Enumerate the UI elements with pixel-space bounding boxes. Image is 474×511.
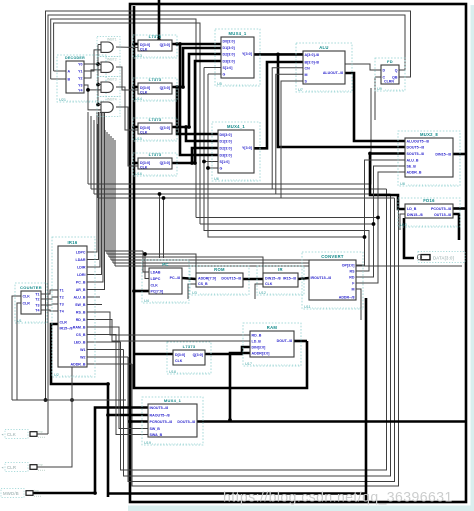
svg-text:ADDR_B: ADDR_B xyxy=(71,363,86,367)
convert U11 xyxy=(302,252,363,309)
svg-text:U18: U18 xyxy=(169,370,176,374)
svg-text:PCROUT5--/8: PCROUT5--/8 xyxy=(150,420,173,424)
svg-text:PC[7:0]: PC[7:0] xyxy=(151,290,164,294)
junction sel dots xyxy=(202,160,210,170)
wire counter q3 xyxy=(41,304,58,305)
svg-text:CLK: CLK xyxy=(140,91,148,95)
wire select loop s1 xyxy=(200,224,374,277)
svg-text:CS_B: CS_B xyxy=(76,333,86,337)
svg-text:INST1: INST1 xyxy=(107,38,117,42)
junction regB xyxy=(175,85,185,89)
svg-text:CN: CN xyxy=(305,66,311,70)
svg-text:CLK: CLK xyxy=(265,282,273,286)
svg-text:IR: IR xyxy=(278,267,283,272)
svg-text:CLK: CLK xyxy=(151,284,159,288)
bus L7373 to RAM xyxy=(205,347,250,354)
svg-text:A: A xyxy=(68,70,71,74)
bus ALU out xyxy=(345,73,405,141)
wire fd d xyxy=(345,64,381,70)
junction mux28 entries xyxy=(368,152,372,156)
bus IR16 input loop xyxy=(51,324,108,497)
svg-text:U2: U2 xyxy=(54,373,59,377)
svg-text:U7: U7 xyxy=(298,88,303,92)
wire IR16 mid stub1 xyxy=(87,296,100,298)
wire mux28 pin6 down xyxy=(378,172,405,218)
svg-text:A[3:0]-/8: A[3:0]-/8 xyxy=(305,53,319,57)
wire ir16 pin stub b3 xyxy=(87,356,128,358)
wire loop bottom4 xyxy=(132,195,399,486)
fd16 U10 xyxy=(398,198,460,227)
svg-text:inp: inp xyxy=(39,429,43,433)
svg-text:T3: T3 xyxy=(60,303,64,307)
svg-text:Q[3:0]: Q[3:0] xyxy=(193,353,203,357)
junction misc xyxy=(44,382,232,495)
svg-text:T3: T3 xyxy=(35,304,39,308)
svg-text:T1: T1 xyxy=(60,289,64,293)
wire convert p5 xyxy=(356,289,361,320)
bus mux28 out xyxy=(453,153,465,156)
and gate G4 xyxy=(97,97,120,117)
svg-text:U4: U4 xyxy=(144,299,149,303)
junction bus ring regs xyxy=(132,38,161,165)
junction regA xyxy=(175,42,182,46)
wire y400 long xyxy=(12,400,126,434)
svg-text:T4: T4 xyxy=(35,309,39,313)
bus regB out xyxy=(172,48,221,87)
svg-text:RD_B: RD_B xyxy=(76,318,86,322)
svg-text:LD_B: LD_B xyxy=(407,207,417,211)
svg-text:CLRN: CLRN xyxy=(384,80,394,84)
reg U16 xyxy=(133,152,177,176)
svg-text:PC: PC xyxy=(162,262,168,267)
junction regD xyxy=(190,161,197,165)
svg-text:PCOUT5--/8: PCOUT5--/8 xyxy=(431,207,451,211)
svg-text:B[3:0]-/8: B[3:0]-/8 xyxy=(305,61,319,65)
svg-text:S[1:0]: S[1:0] xyxy=(223,66,233,70)
wire ir16 pin stub b1 xyxy=(87,341,121,343)
wire net1 top loop xyxy=(46,11,411,400)
svg-text:LDAB: LDAB xyxy=(151,271,161,275)
bus reg top feed xyxy=(158,0,161,40)
wire counter clk xyxy=(12,296,21,400)
svg-text:COUNTER: COUNTER xyxy=(20,285,42,290)
wire mid bus h4 xyxy=(98,197,395,199)
svg-text:MUX4_1: MUX4_1 xyxy=(227,124,245,129)
wire mid bus h2 xyxy=(91,188,387,190)
bus regfile left vertical xyxy=(134,6,307,388)
wire counter q2 xyxy=(41,297,58,299)
bus mux3 out long xyxy=(197,420,465,423)
svg-text:FD16: FD16 xyxy=(423,198,435,203)
svg-text:U17: U17 xyxy=(245,362,252,366)
svg-text:L7373: L7373 xyxy=(149,152,162,157)
wire ir16 pin stub b2 xyxy=(87,349,124,351)
wire mid bus h3 xyxy=(94,193,391,195)
svg-text:U9: U9 xyxy=(377,87,382,91)
svg-text:AR_B: AR_B xyxy=(76,288,86,292)
svg-text:W1: W1 xyxy=(80,348,85,352)
canvas edge strip bottom xyxy=(128,506,474,511)
wire loop bottom1 xyxy=(121,189,387,470)
fd U9 xyxy=(375,58,405,91)
wire mux28 pin4 down xyxy=(365,160,406,237)
svg-text:CLK: CLK xyxy=(23,295,31,299)
svg-text:T2: T2 xyxy=(60,296,64,300)
and gate G1 xyxy=(97,37,120,57)
bus fd16 out down connector xyxy=(404,218,414,258)
svg-text:D3[3:0]: D3[3:0] xyxy=(220,154,232,158)
svg-text:S[1:0]: S[1:0] xyxy=(220,160,230,164)
svg-text:T2: T2 xyxy=(35,298,39,302)
mux U5 xyxy=(215,29,260,86)
bus regC out xyxy=(172,54,221,127)
bus IR out xyxy=(298,278,309,279)
svg-text:ADDR--/8: ADDR--/8 xyxy=(339,296,355,300)
junction pc in xyxy=(132,289,136,293)
decoder U21 xyxy=(57,55,106,102)
svg-text:◂: ◂ xyxy=(2,433,4,437)
svg-text:Q[3:0]: Q[3:0] xyxy=(160,161,170,165)
svg-text:Q[3:0]: Q[3:0] xyxy=(160,86,170,90)
reg U14 xyxy=(133,77,177,101)
bus RAM addr loop xyxy=(230,353,250,420)
wire gate2 out to regB clk xyxy=(116,67,138,90)
wire gate1 out to regA clk xyxy=(116,46,138,49)
svg-text:Q[3:0]: Q[3:0] xyxy=(160,43,170,47)
svg-text:D0[3:0]: D0[3:0] xyxy=(220,133,232,137)
wire net3 top loop (CLK to top) xyxy=(51,19,196,218)
wire dec out4b xyxy=(88,89,101,91)
bus regC out b xyxy=(186,127,218,141)
svg-text:DIN15--/8: DIN15--/8 xyxy=(265,277,281,281)
wire IR16 ctrl elbows xyxy=(105,130,115,266)
wire counter q4 xyxy=(41,310,58,311)
svg-text:RD_B: RD_B xyxy=(252,334,262,338)
wire dec out3 xyxy=(84,70,101,78)
svg-text:RAOUT5--/8: RAOUT5--/8 xyxy=(150,414,170,418)
counter U1 xyxy=(15,283,47,323)
svg-text:CS_B: CS_B xyxy=(198,282,208,286)
wire mux28 pin5 down xyxy=(374,166,406,224)
reg U13 xyxy=(133,34,177,58)
svg-text:CLK: CLK xyxy=(7,432,16,437)
wire IR16 ctrl up-bundle xyxy=(87,112,105,290)
junction mux1 out branch xyxy=(276,53,280,57)
svg-text:RAM_B: RAM_B xyxy=(73,326,86,330)
svg-text:D1[3:0]: D1[3:0] xyxy=(220,140,232,144)
svg-text:Q: Q xyxy=(395,69,398,73)
wire gate3 out to regC clk xyxy=(116,87,138,130)
wire fd16 ld xyxy=(400,214,405,230)
wire alu s xyxy=(281,81,303,198)
bus convert addr down xyxy=(365,298,368,503)
svg-text:Y0: Y0 xyxy=(78,63,82,67)
svg-text:OUT15--/8: OUT15--/8 xyxy=(434,213,451,217)
wire fd c xyxy=(375,77,381,120)
svg-text:MUX4_1: MUX4_1 xyxy=(164,398,182,403)
svg-text:OP[3:0]: OP[3:0] xyxy=(342,264,355,268)
svg-text:L7373: L7373 xyxy=(149,117,162,122)
svg-text:ALU_B: ALU_B xyxy=(74,296,86,300)
wire loop bottom2 xyxy=(124,194,391,476)
wire gate4 out to regD clk xyxy=(116,107,138,166)
bus regA out b xyxy=(180,44,218,155)
svg-text:IR15--/8: IR15--/8 xyxy=(60,327,73,331)
wire loop bottom3 xyxy=(128,198,395,482)
svg-text:SW_B: SW_B xyxy=(150,427,161,431)
wire gate shared enable xyxy=(97,45,99,105)
svg-text:LDPC: LDPC xyxy=(151,277,161,281)
wire select loop s3 xyxy=(208,74,365,265)
svg-text:U13: U13 xyxy=(135,54,142,58)
wire mid stub v2 xyxy=(90,116,92,189)
svg-text:INST2: INST2 xyxy=(107,58,117,62)
svg-text:ALUOUT--/8: ALUOUT--/8 xyxy=(323,71,343,75)
svg-text:DOUT5--/8: DOUT5--/8 xyxy=(407,146,425,150)
svg-text:SWA_B: SWA_B xyxy=(150,433,163,437)
svg-text:DOUT--/8: DOUT--/8 xyxy=(277,339,292,343)
svg-text:D2[3:0]: D2[3:0] xyxy=(220,147,232,151)
bus PC out xyxy=(182,278,196,279)
and gate G3 xyxy=(97,77,120,97)
junction gate bus xyxy=(86,62,100,106)
svg-text:U16: U16 xyxy=(135,172,142,176)
svg-text:Y4: Y4 xyxy=(78,89,82,93)
wire select loop s2 xyxy=(204,68,369,272)
bus bottom thick link xyxy=(108,492,366,495)
svg-text:D[3:0]: D[3:0] xyxy=(140,126,150,130)
svg-text:U15: U15 xyxy=(135,137,142,141)
output port DATA[3:0] xyxy=(417,252,465,263)
svg-text:https://blog.csdn.net/qq_36396: https://blog.csdn.net/qq_36396631 xyxy=(223,489,453,505)
svg-text:B: B xyxy=(68,78,71,82)
svg-text:Y3: Y3 xyxy=(78,84,82,88)
svg-text:U3: U3 xyxy=(192,291,197,295)
bus fd16 out row1 xyxy=(453,207,465,210)
alu U7 xyxy=(296,43,352,92)
svg-text:D3[3:0]: D3[3:0] xyxy=(223,60,235,64)
svg-text:D2[3:0]: D2[3:0] xyxy=(223,53,235,57)
svg-text:M: M xyxy=(352,288,355,292)
svg-text:MWD/B: MWD/B xyxy=(3,491,19,496)
wire mux2 sel taps xyxy=(204,162,218,169)
svg-text:CLR: CLR xyxy=(60,321,68,325)
svg-text:CLK: CLK xyxy=(140,131,148,135)
wire counter clr xyxy=(17,303,21,400)
svg-text:G: G xyxy=(223,73,226,77)
svg-text:INOUT5--/8: INOUT5--/8 xyxy=(150,406,169,410)
ram U17 xyxy=(243,323,301,366)
bus PC in xyxy=(134,290,149,293)
svg-text:PC--/8: PC--/8 xyxy=(170,276,180,280)
bus mux2 out to alu b xyxy=(254,62,303,148)
wire net4 top loop xyxy=(54,23,200,224)
input port CLR xyxy=(2,462,46,471)
wire ir clk xyxy=(255,284,263,299)
svg-text:T1: T1 xyxy=(35,293,39,297)
wire mid stub v3 xyxy=(93,120,95,194)
pc U4 xyxy=(142,260,189,303)
svg-text:D[3:0]: D[3:0] xyxy=(140,86,150,90)
svg-text:LDRI: LDRI xyxy=(77,273,85,277)
svg-text:U19: U19 xyxy=(144,441,151,445)
input port CLK xyxy=(2,429,46,438)
svg-text:ALUOUT5--/8: ALUOUT5--/8 xyxy=(407,140,429,144)
svg-text:ALU: ALU xyxy=(319,45,329,50)
wire IR16 low pin3 xyxy=(87,327,148,429)
wire IR16 low pin4 xyxy=(87,335,148,435)
wire mid stub v4 xyxy=(97,124,99,198)
wire clr up to IR16 xyxy=(37,320,72,467)
ir16 U2 xyxy=(52,237,95,377)
svg-text:D[3:0]: D[3:0] xyxy=(175,353,185,357)
svg-text:DOUT5--/8: DOUT5--/8 xyxy=(177,420,195,424)
mux U6 xyxy=(212,122,260,181)
svg-text:L7373: L7373 xyxy=(183,344,196,349)
svg-text:W2: W2 xyxy=(80,356,85,360)
bus mux1 out to ALU xyxy=(254,53,303,56)
bus regD out xyxy=(172,61,221,163)
wire alu cn xyxy=(272,68,303,189)
wire select loop s0 xyxy=(196,218,378,284)
svg-text:DIN15--/8: DIN15--/8 xyxy=(435,153,451,157)
svg-text:U5: U5 xyxy=(217,82,222,86)
svg-text:D[3:0]: D[3:0] xyxy=(140,161,150,165)
svg-text:U8: U8 xyxy=(400,182,405,186)
wire dec out2 xyxy=(84,50,101,71)
svg-text:U11: U11 xyxy=(304,305,311,309)
svg-text:RAM: RAM xyxy=(267,325,278,330)
junction sel T dots xyxy=(363,216,380,239)
wire dec out4 xyxy=(84,85,101,110)
svg-text:LD_B: LD_B xyxy=(252,340,262,344)
bus ROM out xyxy=(243,278,263,281)
bus MWD connector line xyxy=(33,408,148,494)
svg-text:MUX2_8: MUX2_8 xyxy=(420,132,438,137)
bus RAM dout to mux28 xyxy=(294,340,307,343)
svg-text:U10: U10 xyxy=(400,223,407,227)
svg-text:MUX4_1: MUX4_1 xyxy=(228,31,246,36)
canvas edge strip right xyxy=(471,5,474,511)
svg-text:IR15--/8: IR15--/8 xyxy=(283,277,296,281)
svg-text:ROM: ROM xyxy=(214,267,225,272)
bus regA out xyxy=(172,43,221,46)
wire decoder in B xyxy=(51,78,66,80)
svg-text:D0[3:0]: D0[3:0] xyxy=(223,40,235,44)
wire dec out1 xyxy=(84,63,98,65)
svg-text:DIN[3:0]: DIN[3:0] xyxy=(252,346,266,350)
svg-text:LDPC: LDPC xyxy=(76,251,86,255)
svg-text:CLR: CLR xyxy=(23,302,31,306)
junction regC xyxy=(184,125,191,129)
svg-text:L7373: L7373 xyxy=(149,34,162,39)
svg-text:M: M xyxy=(305,73,308,77)
svg-text:ALU_B: ALU_B xyxy=(407,159,419,163)
svg-text:Y2: Y2 xyxy=(78,77,82,81)
svg-text:SE_B: SE_B xyxy=(407,165,417,169)
svg-text:D: D xyxy=(383,69,386,73)
svg-text:INST4: INST4 xyxy=(107,98,117,102)
wire pc feed v2 xyxy=(163,198,165,258)
junction pc feed xyxy=(158,192,166,200)
wire IR16 ctrl right fan xyxy=(105,251,462,273)
svg-text:RS: RS xyxy=(350,270,356,274)
svg-text:DOUT15--/8: DOUT15--/8 xyxy=(221,277,241,281)
svg-text:CLK: CLK xyxy=(175,359,183,363)
svg-text:Y[3:0]: Y[3:0] xyxy=(242,146,252,150)
wire IR16 mid stub2 xyxy=(87,304,102,306)
bus mux3 in2 xyxy=(108,414,148,417)
wire rom cs xyxy=(188,284,196,299)
svg-text:U1: U1 xyxy=(17,319,22,323)
bus mux1 out branch down xyxy=(278,54,405,147)
svg-text:IROUT15--/8: IROUT15--/8 xyxy=(311,276,332,280)
svg-text:IR16: IR16 xyxy=(67,240,77,245)
wire gate in stubs xyxy=(98,45,101,105)
wire mux1 sel taps xyxy=(204,68,221,75)
wire alu m xyxy=(276,74,303,194)
svg-text:◂: ◂ xyxy=(2,466,4,470)
svg-text:ADDR[3:0]: ADDR[3:0] xyxy=(252,352,270,356)
svg-text:DATA[3:0]: DATA[3:0] xyxy=(433,255,454,260)
reg U15 xyxy=(133,117,177,141)
rom U3 xyxy=(190,266,249,295)
wire decoder in A xyxy=(54,70,66,72)
svg-text:PC_B: PC_B xyxy=(76,281,86,285)
mux28 U8 xyxy=(398,131,460,186)
svg-text:U14: U14 xyxy=(135,97,142,101)
svg-text:DECODER: DECODER xyxy=(65,56,85,60)
svg-text:Q[3:0]: Q[3:0] xyxy=(160,126,170,130)
bus L7373 feed xyxy=(134,353,173,356)
mux3 U19 xyxy=(142,397,203,445)
svg-text:inp: inp xyxy=(39,462,43,466)
svg-text:T4: T4 xyxy=(60,310,64,314)
bus regB out b xyxy=(177,87,218,134)
wire pc feed v1 xyxy=(159,194,161,258)
svg-text:RS_B: RS_B xyxy=(76,311,86,315)
svg-text:L7373: L7373 xyxy=(149,77,162,82)
svg-text:U21: U21 xyxy=(59,98,66,102)
svg-text:SOUT5--/8: SOUT5--/8 xyxy=(407,152,424,156)
svg-text:Y1: Y1 xyxy=(78,70,82,74)
wire IR16 low pin1 xyxy=(87,312,250,335)
wire pc pins xyxy=(143,251,149,279)
wire IR16 low pin2 xyxy=(87,320,250,342)
svg-text:LED_B: LED_B xyxy=(74,341,86,345)
ir U2b xyxy=(257,266,304,295)
bus ring CLK loop xyxy=(130,4,466,502)
svg-text:D1[3:0]: D1[3:0] xyxy=(223,46,235,50)
svg-text:LDAR: LDAR xyxy=(76,258,86,262)
wire counter q1 xyxy=(41,290,58,294)
input port MWD/B xyxy=(0,488,41,497)
wire mid bus h1 xyxy=(88,88,371,184)
svg-text:ADDR_B: ADDR_B xyxy=(407,171,422,175)
svg-text:ADDR[7:0]: ADDR[7:0] xyxy=(198,277,216,281)
svg-text:CONVERT: CONVERT xyxy=(321,254,344,259)
svg-text:U12: U12 xyxy=(259,291,266,295)
svg-text:FD: FD xyxy=(387,59,393,64)
bus reg D stubs xyxy=(134,44,138,163)
svg-text:DIN15--/8: DIN15--/8 xyxy=(407,213,423,217)
wire mid stub v1 xyxy=(87,112,89,184)
svg-text:INST3: INST3 xyxy=(107,78,117,82)
svg-text:LDIR: LDIR xyxy=(77,266,86,270)
bus regD out b xyxy=(192,148,218,163)
bus mid thick right xyxy=(370,154,405,210)
svg-text:inp: inp xyxy=(35,488,39,492)
